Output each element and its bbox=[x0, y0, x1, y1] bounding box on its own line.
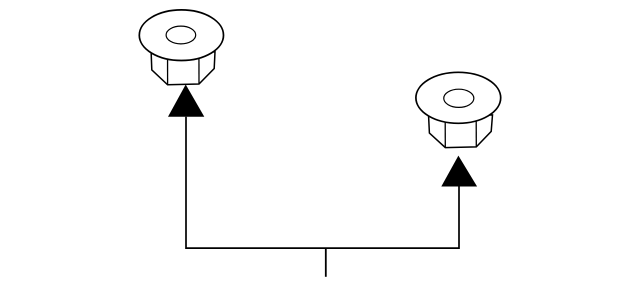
flange nut 1 hex body bbox=[151, 52, 215, 85]
leader center stub bbox=[325, 248, 327, 277]
flange nut 2 hex face line right bbox=[475, 121, 477, 147]
flange nut 2 center hole bbox=[444, 89, 474, 107]
arrowhead pointing to nut 2 bbox=[441, 156, 477, 187]
flange nut 1 center hole bbox=[166, 26, 196, 44]
arrowhead pointing to nut 1 bbox=[168, 85, 204, 117]
flange nut 1 hex face line left bbox=[167, 59, 169, 85]
flange nut 2 hex body bbox=[429, 115, 493, 148]
flange nut 1 flange top bbox=[139, 10, 223, 61]
flange nut 1 hex face line right bbox=[198, 58, 200, 84]
flange nut 2 hex face line left bbox=[444, 122, 446, 148]
flange nut 2 flange top bbox=[416, 72, 501, 123]
leader line: left stem, horizontal run, right stem bbox=[186, 117, 459, 248]
